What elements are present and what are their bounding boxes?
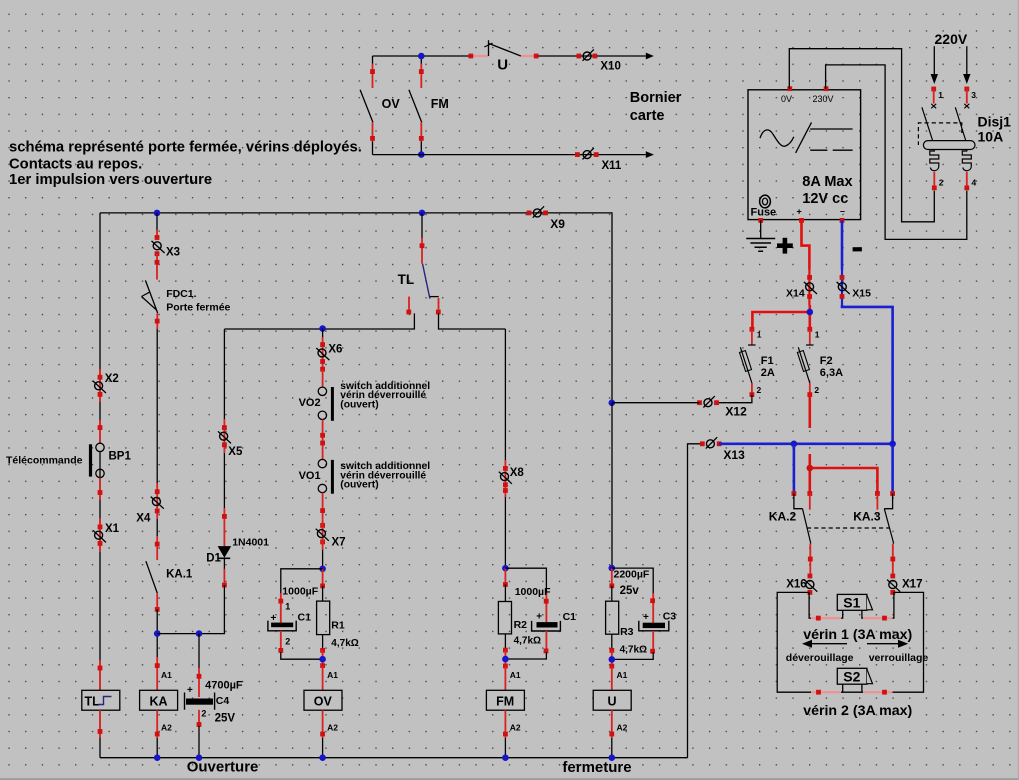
svg-text:2: 2 — [757, 385, 762, 395]
terminal X16 — [809, 544, 811, 577]
resistor R1 4,7k — [322, 569, 324, 586]
wire: F1 to X12 — [717, 395, 752, 403]
svg-text:8A Max: 8A Max — [802, 174, 852, 190]
node: junction R2/C1 bottom — [502, 656, 509, 663]
svg-text:U: U — [607, 695, 616, 709]
svg-text:(ouvert): (ouvert) — [340, 400, 378, 411]
svg-text:C3: C3 — [663, 611, 677, 623]
svg-text:4700µF: 4700µF — [205, 680, 243, 692]
terminal X12 — [703, 396, 714, 407]
coil OV — [320, 663, 325, 668]
thermal element pole 4 — [962, 150, 971, 171]
fuse F1 2A — [750, 327, 755, 332]
svg-text:X11: X11 — [602, 160, 622, 172]
breaker pole 2 terminal — [933, 172, 935, 190]
arrow 220V right — [966, 46, 968, 76]
svg-text:X10: X10 — [600, 60, 620, 72]
svg-text:4,7kΩ: 4,7kΩ — [514, 636, 541, 647]
wire: D1 column top from TL horizontal — [223, 329, 225, 419]
wire: F2 red down — [808, 395, 811, 428]
dashed mechanical link KA.2-KA.3 — [807, 527, 890, 529]
terminal X11 — [583, 148, 594, 159]
svg-text:S1: S1 — [843, 595, 860, 611]
node: bus junction TL column — [419, 210, 426, 217]
svg-text:2: 2 — [201, 708, 206, 718]
AC/DC symbol inside supply — [760, 130, 794, 146]
node: junction R1/C1 bottom — [319, 656, 326, 663]
svg-text:X7: X7 — [332, 537, 346, 549]
svg-text:verrouillage: verrouillage — [869, 652, 929, 664]
terminal X14 — [808, 270, 810, 306]
svg-text:schéma représenté porte fermée: schéma représenté porte fermée, vérins d… — [9, 139, 362, 155]
pink segments S1 row — [811, 617, 893, 619]
wire: top edge of OV/FM/U loop — [373, 55, 646, 57]
svg-text:+: + — [536, 612, 542, 623]
svg-text:1N4001: 1N4001 — [232, 537, 269, 549]
terminal X6 — [322, 329, 324, 337]
svg-text:+: + — [187, 685, 193, 696]
coil KA — [156, 657, 158, 690]
arrow 220V left — [933, 46, 935, 76]
svg-text:X15: X15 — [852, 287, 871, 299]
resistor R2 4,7k — [504, 568, 506, 584]
svg-text:1: 1 — [757, 329, 762, 339]
terminal X2 on left rail — [99, 369, 101, 402]
push button BP1 — [99, 420, 101, 443]
svg-text:X9: X9 — [550, 217, 565, 231]
svg-text:BP1: BP1 — [109, 450, 132, 462]
wire: blue drop to KA.2 — [793, 444, 796, 492]
svg-text:Disj1: Disj1 — [978, 113, 1012, 129]
svg-text:KA.2: KA.2 — [769, 509, 797, 523]
contact KA.3 — [884, 494, 892, 509]
svg-text:0V: 0V — [781, 94, 792, 104]
diode D1 1N4001 — [223, 453, 225, 508]
svg-text:A1: A1 — [617, 670, 628, 680]
svg-text:Contacts au repos.: Contacts au repos. — [9, 157, 142, 173]
wire: -12V blue from supply — [841, 220, 844, 269]
bottom window edge — [0, 778, 1019, 780]
svg-text:VO1: VO1 — [299, 470, 321, 482]
breaker Disj1 pole 3 — [964, 87, 969, 92]
switch U — [488, 40, 490, 56]
capacitor C1 1000uF (FM) — [505, 568, 546, 593]
TL left leg — [408, 297, 410, 310]
svg-text:A2: A2 — [161, 723, 172, 733]
arrow deverrouillage (left) — [810, 643, 847, 645]
svg-text:R3: R3 — [620, 626, 634, 638]
red stubs below KA.2/KA.3 top terminals — [810, 494, 878, 510]
svg-text:X6: X6 — [328, 344, 342, 356]
coil FM — [503, 664, 508, 669]
svg-text:X3: X3 — [166, 247, 180, 259]
big minus — [853, 247, 862, 251]
node: junction R2/C1 top — [502, 565, 509, 572]
svg-text:25V: 25V — [215, 713, 236, 725]
svg-text:A2: A2 — [510, 723, 521, 733]
wire: left horizontal to X5 column — [224, 328, 322, 330]
svg-text:FDC1.: FDC1. — [166, 288, 196, 300]
svg-text:A1: A1 — [510, 670, 521, 680]
svg-text:1er impulsion vers ouverture: 1er impulsion vers ouverture — [9, 172, 212, 188]
breaker mechanism dashed box — [918, 123, 961, 145]
svg-text:A1: A1 — [161, 670, 172, 680]
svg-text:X5: X5 — [228, 446, 243, 458]
terminal X9 — [533, 206, 544, 217]
contact KA.2 — [794, 494, 803, 509]
node: junction X6 column — [319, 325, 326, 332]
svg-text:Fuse: Fuse — [751, 206, 777, 218]
terminal X8 — [504, 329, 506, 460]
svg-text:1000µF: 1000µF — [282, 585, 318, 597]
svg-text:TL: TL — [398, 272, 415, 287]
svg-text:25v: 25v — [620, 585, 640, 597]
svg-text:2: 2 — [939, 177, 944, 187]
svg-text:6,3A: 6,3A — [820, 367, 843, 379]
verins box outline — [777, 592, 923, 692]
terminal X10 — [583, 49, 594, 60]
svg-text:A1: A1 — [327, 670, 338, 680]
svg-text:A2: A2 — [617, 723, 628, 733]
node: junction R1/C1 top — [319, 566, 326, 573]
svg-text:–: – — [840, 206, 845, 216]
node: junctions on FM column — [418, 53, 425, 60]
svg-text:F1: F1 — [761, 355, 774, 367]
svg-text:X2: X2 — [105, 373, 119, 385]
contact TL (changeover) — [421, 213, 423, 238]
svg-text:D1: D1 — [206, 553, 221, 565]
wire: main top bus — [100, 213, 612, 758]
wire: pink segments at switch U — [471, 55, 536, 57]
node: junction U column X12 branch — [609, 400, 616, 407]
svg-text:(ouvert): (ouvert) — [340, 480, 378, 491]
fuse symbol — [760, 195, 771, 208]
breaker housing bar — [923, 141, 975, 150]
breaker Disj1 pole 1 — [931, 87, 936, 92]
svg-text:vérin 1 (3A max): vérin 1 (3A max) — [803, 627, 912, 643]
breaker pole 4 terminal — [966, 172, 968, 190]
svg-text:R2: R2 — [514, 619, 528, 631]
capacitor C1 1000uF (OV) — [281, 569, 323, 593]
fuse F2 6,3A — [807, 327, 812, 332]
svg-text:+: + — [271, 613, 277, 624]
svg-text:1: 1 — [815, 329, 820, 339]
terminal X4 — [156, 483, 158, 519]
svg-text:X1: X1 — [105, 523, 120, 535]
svg-text:X12: X12 — [725, 405, 747, 419]
wire: 230V to breaker pole 4 — [826, 65, 967, 240]
svg-text:FM: FM — [496, 695, 514, 709]
wire: red feed to KA.2/KA.3 — [810, 454, 878, 494]
svg-text:Bornier: Bornier — [630, 90, 682, 106]
svg-text:A2: A2 — [327, 723, 338, 733]
svg-text:S2: S2 — [843, 669, 860, 685]
ground — [760, 220, 762, 238]
svg-text:4,7kΩ: 4,7kΩ — [620, 644, 647, 655]
wire: blue minus bus — [719, 442, 892, 445]
power supply box — [748, 90, 861, 220]
svg-text:230V: 230V — [813, 94, 834, 104]
contact KA.1 — [156, 519, 158, 536]
contact FM — [420, 56, 422, 64]
switch S1 — [837, 594, 867, 610]
capacitor C3 2200uF — [612, 568, 653, 593]
svg-text:X17: X17 — [902, 579, 922, 591]
node: junction red F1/F2 — [807, 309, 814, 316]
terminal X3 — [156, 230, 158, 238]
wire: bottom edge of loop to X11 — [373, 154, 646, 156]
arrow verrouillage (right) — [867, 643, 900, 645]
switch VO2 — [320, 367, 325, 372]
svg-text:Ouverture: Ouverture — [187, 759, 259, 776]
terminal X13 — [706, 437, 717, 448]
svg-text:1000µF: 1000µF — [515, 586, 551, 598]
svg-text:12V cc: 12V cc — [802, 191, 848, 207]
svg-text:vérin 2 (3A max): vérin 2 (3A max) — [803, 703, 912, 719]
svg-text:C1: C1 — [298, 612, 312, 624]
wire: U column middle — [611, 403, 613, 568]
svg-text:KA.3: KA.3 — [853, 509, 881, 523]
svg-text:R1: R1 — [331, 619, 345, 631]
terminal X1 — [99, 518, 101, 552]
svg-text:Télécommande: Télécommande — [6, 455, 83, 467]
svg-text:Porte fermée: Porte fermée — [166, 301, 230, 313]
svg-text:X4: X4 — [136, 513, 151, 525]
terminal X15 — [841, 270, 843, 306]
svg-text:C1: C1 — [563, 611, 577, 623]
svg-text:2: 2 — [285, 637, 290, 647]
wire: +12V red from supply — [802, 220, 810, 269]
svg-text:OV: OV — [382, 97, 401, 111]
node: junction C4 top — [196, 630, 203, 637]
node: junction R3/C3 top — [609, 565, 616, 572]
svg-text:X8: X8 — [510, 467, 525, 479]
pink segments S2 row — [811, 691, 893, 693]
svg-text:KA.1: KA.1 — [166, 568, 193, 580]
svg-text:3: 3 — [971, 90, 976, 100]
svg-text:OV: OV — [314, 695, 333, 709]
limit switch FDC1 — [156, 254, 158, 280]
switch S2 — [843, 684, 862, 692]
svg-text:fermeture: fermeture — [562, 759, 631, 776]
svg-text:X16: X16 — [786, 579, 806, 591]
coil TL — [99, 660, 101, 690]
svg-text:+: + — [797, 207, 802, 217]
svg-text:X14: X14 — [786, 287, 805, 299]
terminal X17 — [892, 544, 894, 577]
svg-text:TL: TL — [85, 695, 101, 709]
switch VO1 — [318, 459, 326, 467]
svg-text:déverouillage: déverouillage — [786, 652, 854, 664]
svg-text:2200µF: 2200µF — [614, 568, 650, 580]
svg-text:4,7kΩ: 4,7kΩ — [331, 638, 358, 649]
svg-text:10A: 10A — [978, 128, 1004, 144]
svg-text:2: 2 — [814, 385, 819, 395]
svg-text:VO2: VO2 — [299, 397, 321, 409]
node: bus junction X3 column — [154, 210, 161, 217]
arrow to bornier (bottom) — [646, 151, 654, 158]
wire: X13 rail down to bottom bus — [688, 444, 703, 758]
svg-text:X13: X13 — [723, 448, 745, 462]
svg-text:220V: 220V — [935, 31, 968, 47]
svg-text:FM: FM — [431, 97, 449, 111]
TL right leg — [438, 298, 440, 310]
wire: blue drop to KA.3 — [891, 444, 894, 492]
svg-text:KA: KA — [149, 695, 167, 709]
svg-text:1: 1 — [285, 601, 290, 611]
wire: bottom bus — [100, 757, 688, 759]
svg-text:+: + — [643, 612, 649, 623]
terminal X7 — [320, 523, 325, 528]
node: junction R3/C3 bottom — [609, 656, 616, 663]
arrow to bornier (top) — [646, 53, 654, 60]
svg-text:F2: F2 — [820, 355, 833, 367]
svg-text:carte: carte — [630, 108, 665, 124]
big plus — [777, 243, 793, 248]
svg-text:C4: C4 — [216, 695, 230, 707]
wire: blue down right side — [842, 305, 893, 444]
thermal element pole 2 — [930, 150, 939, 171]
svg-text:2A: 2A — [761, 367, 775, 379]
wire X3 column middle — [156, 329, 158, 483]
wire: 0V to breaker pole 2 — [789, 49, 934, 222]
node: junction KA.1/D1 — [154, 630, 161, 637]
coil U — [609, 664, 614, 669]
wire: X12 to U column — [612, 402, 700, 404]
svg-text:4: 4 — [972, 177, 977, 187]
wire: red to fuse row — [752, 305, 809, 327]
resistor R3 4,7k — [611, 568, 613, 586]
capacitor C4 4700uF — [198, 634, 200, 668]
svg-text:U: U — [497, 57, 508, 74]
terminal X5 — [223, 419, 225, 453]
contact OV — [372, 56, 374, 64]
svg-text:1: 1 — [938, 90, 943, 100]
